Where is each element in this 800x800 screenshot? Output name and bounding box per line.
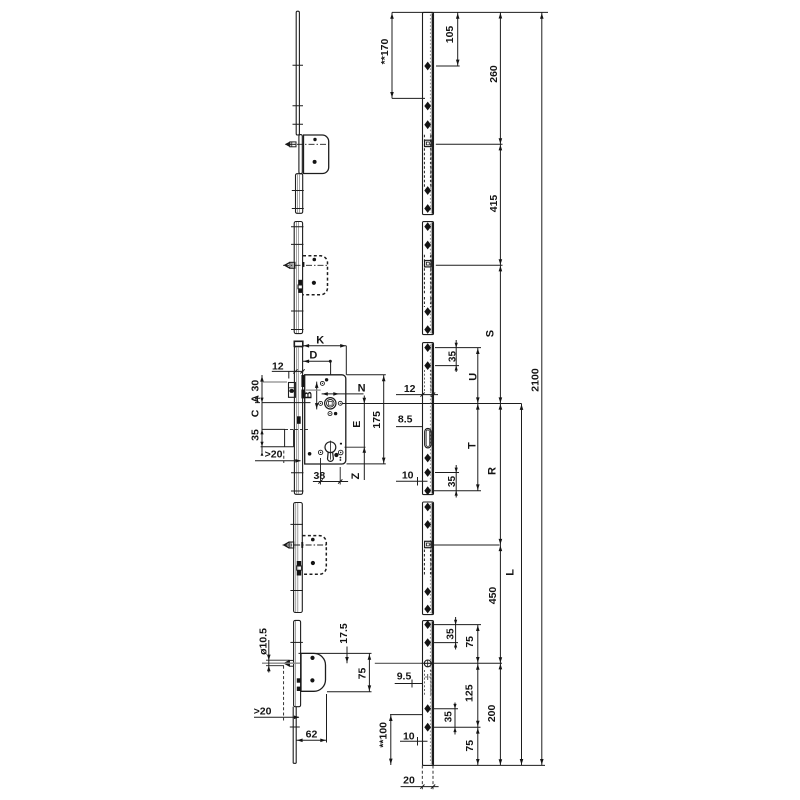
rod ticks segment 2: [291, 227, 304, 330]
dimension L: [521, 404, 523, 766]
svg-text:175: 175: [371, 411, 383, 429]
dimension 38: [313, 481, 348, 483]
latch point 1 centerline: [286, 143, 329, 145]
latch point 1 screw holes: [313, 138, 316, 141]
small marks right of cylinder: [340, 443, 342, 445]
bottom axis extension: [375, 662, 421, 664]
svg-text:38: 38: [314, 470, 326, 482]
dimension A bracket: [255, 397, 260, 403]
faceplate segment 5: [294, 620, 301, 706]
svg-text:L: L: [505, 569, 517, 576]
svg-text:9.5: 9.5: [397, 671, 412, 683]
svg-text:N: N: [358, 383, 366, 395]
stack connector: 30 (latch axis, grey): [263, 381, 287, 383]
svg-text:12: 12: [272, 360, 284, 372]
35 bracket 2: [435, 465, 459, 498]
bottom faceplate slots: [297, 678, 301, 682]
strike rail segment A: [423, 12, 434, 214]
rail bottom extension line: [432, 764, 545, 766]
dimension 20: [401, 786, 439, 788]
main latch bolt: [289, 383, 296, 398]
cylinder screw bosses: [308, 452, 312, 456]
svg-text:30: 30: [249, 380, 261, 392]
svg-text:12: 12: [404, 383, 416, 395]
faceplate segment 4: [294, 503, 303, 613]
latch 1 axis extension: [436, 143, 503, 145]
svg-text:B: B: [303, 391, 315, 399]
rail dashed window: [424, 550, 430, 576]
faceplate slots (black): [301, 375, 304, 387]
svg-text:260: 260: [488, 65, 500, 83]
latch point 4 centerline (grey): [262, 662, 300, 664]
rail bottom adjuster (circle): [424, 660, 431, 667]
rail dashed window segment C top: [424, 370, 430, 392]
svg-text:17.5: 17.5: [338, 623, 350, 644]
bottom body screw holes: [310, 656, 314, 660]
faceplate lower part segment 1: [296, 174, 303, 214]
latch point 2 pin bolt: [283, 262, 290, 269]
faceplate segment 2: [294, 222, 302, 334]
lock case outline: [305, 375, 346, 464]
latch point 4 pin bolt: [283, 660, 289, 667]
stack connector: cylinder axis: [261, 446, 294, 448]
dimension 10 upper: [396, 477, 428, 486]
follower screw bosses: [319, 401, 323, 405]
bottom lock body (solid): [301, 653, 326, 691]
strike rail segment E: [423, 621, 434, 766]
svg-text:200: 200: [486, 704, 498, 722]
dimension 2100: [541, 12, 543, 765]
cylinder axis extension: [345, 446, 366, 448]
dimension **100: [390, 715, 423, 765]
svg-text:E: E: [351, 421, 363, 428]
strike rail segment C: [423, 343, 434, 495]
svg-text:105: 105: [444, 26, 456, 44]
rail screw holes (diamonds): [424, 62, 431, 71]
latch axis short line: [306, 389, 321, 391]
svg-text:**100: **100: [378, 722, 390, 748]
latch point 2 plate nub: [302, 262, 304, 267]
svg-text:35: 35: [447, 476, 458, 488]
svg-text:ø10.5: ø10.5: [258, 628, 270, 655]
svg-text:R: R: [487, 467, 499, 475]
lower rod below faceplate: [293, 707, 296, 764]
bottom plate top extension: [299, 652, 372, 654]
latch point 3 screw holes: [311, 538, 315, 542]
rail dashed window bottom: [424, 670, 430, 695]
svg-text:10: 10: [402, 470, 414, 482]
dimension B: [316, 382, 318, 410]
dimension 8.5: [396, 426, 423, 428]
dimension >20 (bottom): [254, 716, 299, 718]
follower axis long centerline: [342, 403, 522, 405]
U top connector: [435, 347, 481, 349]
svg-text:D: D: [309, 350, 317, 362]
stack connector: 35 top: [262, 428, 286, 430]
svg-text:62: 62: [306, 729, 318, 741]
dimension D line: [303, 361, 331, 375]
left dimension stack line: [261, 375, 263, 453]
faceplate rod segment 1: [296, 11, 299, 135]
svg-text:>20: >20: [254, 706, 272, 718]
top extension line: [392, 11, 548, 13]
svg-text:T: T: [467, 442, 479, 449]
latch 2 axis extension: [436, 264, 503, 266]
35 bracket 3: [434, 617, 481, 650]
svg-text:8.5: 8.5: [398, 414, 413, 426]
svg-text:415: 415: [488, 195, 500, 213]
dimension K line: [303, 346, 346, 375]
dimension 62: [296, 694, 326, 743]
svg-text:20: 20: [403, 775, 415, 787]
svg-text:125: 125: [464, 684, 476, 702]
svg-text:U: U: [468, 373, 480, 381]
dimension column U/T: [477, 348, 479, 491]
dimension 175: [383, 375, 385, 464]
segment 2 connector slots: [298, 280, 302, 286]
T bottom connector: [434, 490, 481, 492]
latch 3 axis extension: [434, 544, 500, 546]
dimension 75 (bottom plate height): [368, 653, 370, 691]
latch point 2 screw holes: [313, 258, 317, 262]
latch point 1 faceplate: [299, 135, 302, 174]
dimension 105: [436, 12, 460, 66]
latch point 1 body: [304, 135, 329, 174]
rod ticks segment 4: [290, 524, 303, 590]
latch point 2 body (dashed): [303, 256, 328, 295]
latch point 1 pin bolt: [285, 142, 290, 147]
35 bracket 1: [435, 340, 459, 372]
rail dashed window above adjuster 2: [424, 297, 430, 307]
svg-text:Z: Z: [350, 473, 362, 480]
dimension 12 (rail width): [396, 394, 438, 396]
latch point 3 centerline: [283, 544, 328, 546]
svg-text:35: 35: [445, 628, 456, 640]
escutcheon edge lines: [285, 429, 294, 446]
rod tick marks segment 1: [293, 65, 304, 124]
profile cylinder hole: [325, 442, 336, 453]
svg-text:C: C: [249, 409, 261, 417]
dimension N line: [322, 393, 364, 395]
svg-text:>20: >20: [265, 449, 283, 461]
dimension E: [363, 396, 365, 481]
svg-text:35: 35: [249, 429, 261, 441]
segment 3 top connector cap: [294, 341, 303, 346]
rail mid dash marks: [427, 674, 429, 680]
35 bracket 4: [434, 703, 481, 735]
stack connector: follower axis: [262, 402, 311, 404]
dimension 10 lower: [400, 737, 428, 746]
rod ticks segment 3: [291, 473, 304, 491]
svg-text:35: 35: [448, 351, 459, 363]
svg-text:450: 450: [487, 587, 499, 605]
rod ticks below latch 1: [292, 191, 304, 209]
dimension o10.5 (pin diameter): [268, 640, 270, 673]
rail dashed window: [424, 255, 430, 295]
latch point 3 pin bolt: [283, 541, 290, 548]
svg-text:10: 10: [403, 730, 415, 742]
svg-text:K: K: [316, 334, 324, 346]
strike rail segment B: [423, 222, 434, 335]
dimension 17.5: [346, 647, 348, 664]
strike rail segment D: [423, 502, 434, 615]
faceplate segment 3 (main lock): [294, 347, 302, 495]
svg-text:75: 75: [356, 668, 368, 680]
dimension column 75/125/75: [477, 625, 479, 766]
svg-text:A: A: [249, 395, 261, 403]
svg-text:75: 75: [464, 636, 476, 648]
latch point 2 centerline: [283, 264, 329, 266]
dimension 9.5: [395, 680, 423, 688]
svg-text:S: S: [485, 330, 497, 337]
rail dashed window: [424, 135, 430, 188]
rod tick segment 5: [290, 641, 303, 643]
svg-text:**170: **170: [379, 39, 391, 65]
latch point 3 plate nub: [301, 542, 303, 548]
dimension 12 line (faceplate width): [272, 371, 304, 378]
svg-text:35: 35: [443, 711, 454, 723]
stack ticks: [260, 376, 264, 382]
dimension **170: [392, 12, 425, 98]
dimension >20 (mid): [255, 460, 301, 462]
svg-text:2100: 2100: [529, 368, 541, 392]
latch point 3 body (dashed): [303, 536, 327, 575]
rail adjuster screw at y=544.5: [425, 541, 432, 547]
rail adjuster screw at y=263.7: [425, 261, 432, 267]
segment 4 connector slots: [297, 561, 301, 567]
rail adjuster screw at y=143.4: [425, 140, 432, 146]
svg-text:75: 75: [464, 740, 476, 752]
rail adjustment slot: [425, 429, 431, 448]
main dimension column (260/415/S/R/450/200): [499, 12, 501, 765]
follower (handle hub): [325, 398, 336, 409]
